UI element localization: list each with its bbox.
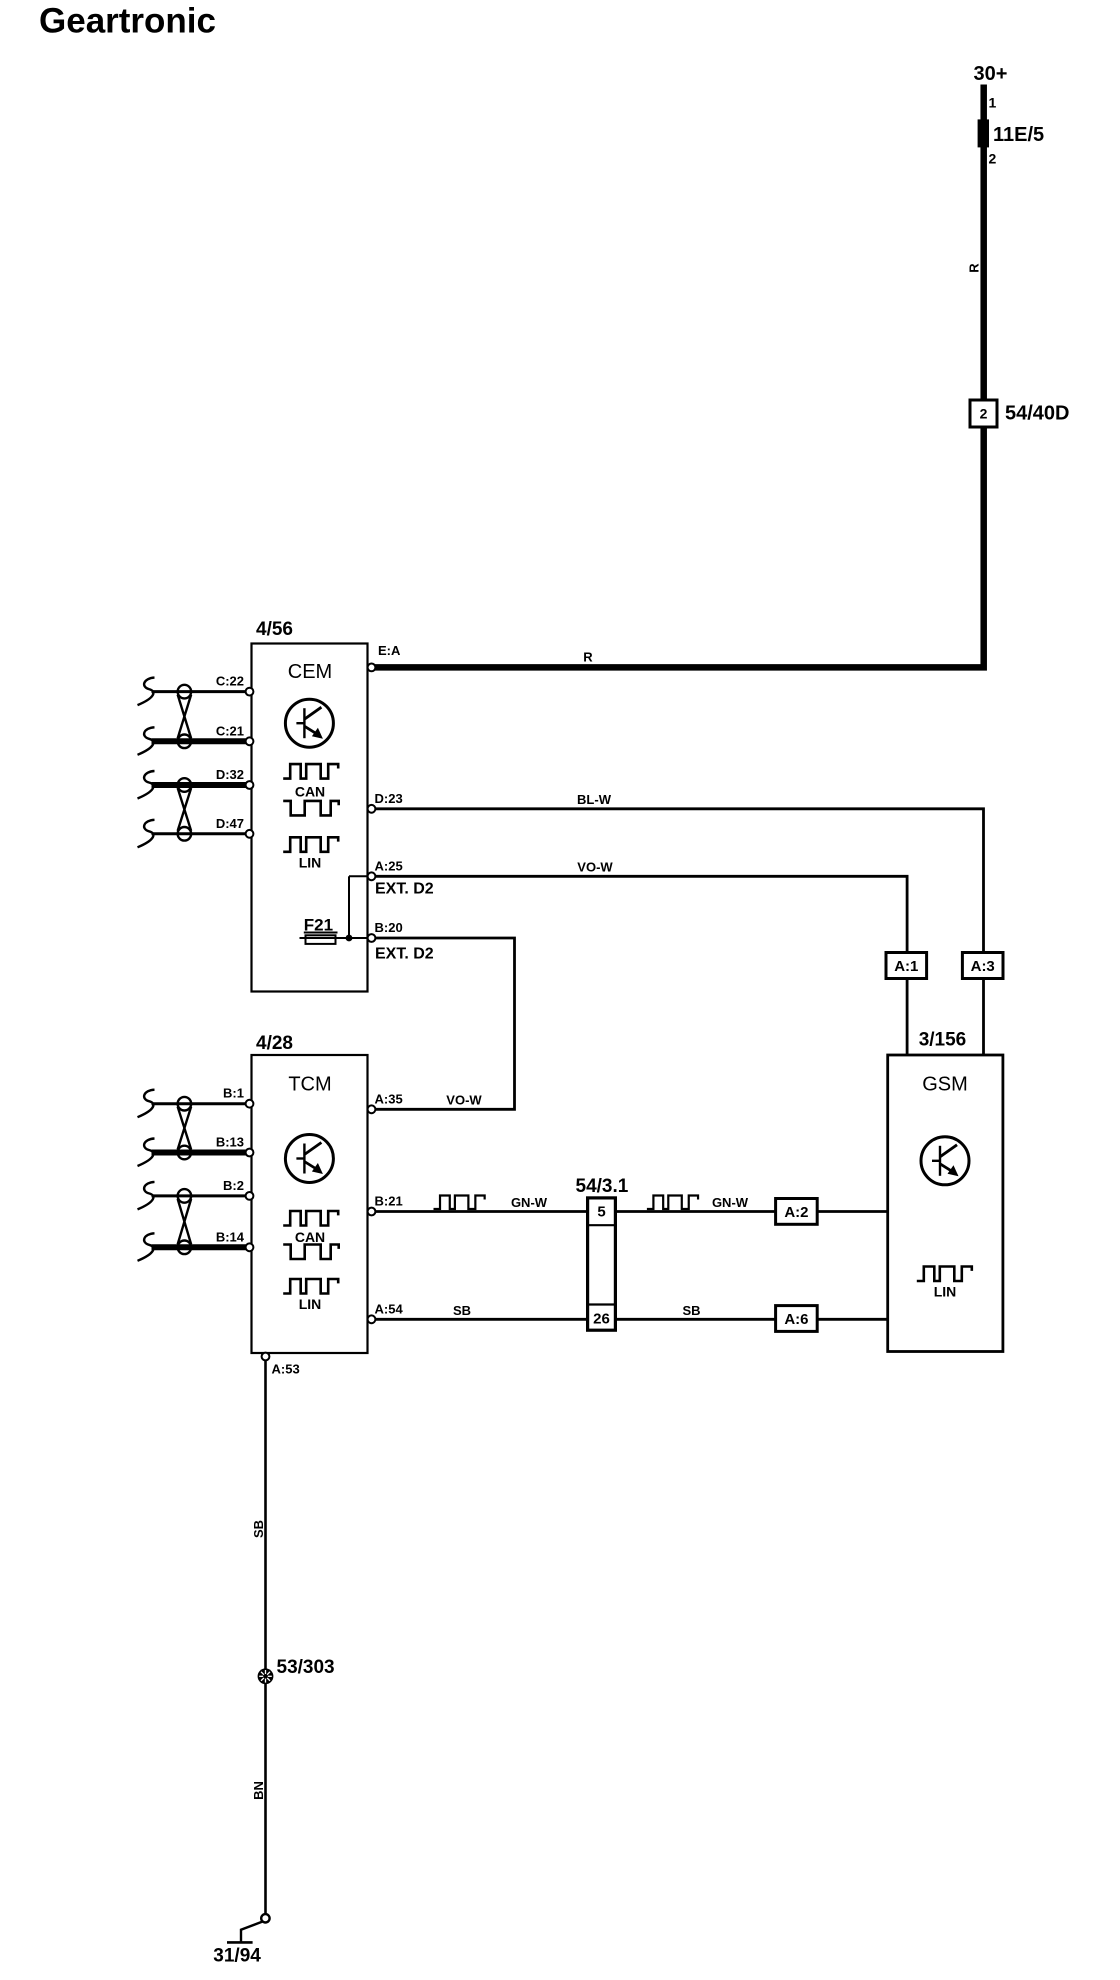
svg-text:26: 26 xyxy=(593,1311,610,1328)
svg-text:GSM: GSM xyxy=(922,1074,968,1096)
svg-text:B:20: B:20 xyxy=(375,920,403,935)
svg-text:GN-W: GN-W xyxy=(712,1195,749,1210)
svg-text:2: 2 xyxy=(989,151,997,167)
svg-text:C:21: C:21 xyxy=(216,723,244,738)
svg-text:B:1: B:1 xyxy=(223,1086,244,1101)
svg-text:A:2: A:2 xyxy=(784,1204,808,1221)
svg-text:VO-W: VO-W xyxy=(577,860,613,875)
svg-text:CAN: CAN xyxy=(295,1229,325,1245)
svg-text:BN: BN xyxy=(251,1781,266,1800)
svg-text:53/303: 53/303 xyxy=(277,1657,335,1678)
svg-text:D:47: D:47 xyxy=(216,816,244,831)
svg-text:A:54: A:54 xyxy=(375,1301,404,1316)
svg-text:D:23: D:23 xyxy=(375,791,403,806)
svg-text:BL-W: BL-W xyxy=(577,792,612,807)
svg-text:54/3.1: 54/3.1 xyxy=(576,1176,629,1197)
svg-text:A:25: A:25 xyxy=(375,858,403,873)
svg-text:SB: SB xyxy=(251,1520,266,1538)
svg-text:E:A: E:A xyxy=(378,643,401,658)
svg-text:C:22: C:22 xyxy=(216,674,244,689)
svg-text:VO-W: VO-W xyxy=(446,1092,482,1107)
svg-text:Geartronic: Geartronic xyxy=(39,2,216,41)
svg-text:11E/5: 11E/5 xyxy=(993,124,1044,146)
svg-text:EXT. D2: EXT. D2 xyxy=(375,881,434,898)
svg-text:CAN: CAN xyxy=(295,784,325,800)
svg-text:2: 2 xyxy=(980,406,988,422)
svg-text:A:6: A:6 xyxy=(784,1311,808,1328)
svg-text:A:35: A:35 xyxy=(375,1091,403,1106)
svg-text:A:1: A:1 xyxy=(894,958,918,975)
svg-text:LIN: LIN xyxy=(934,1284,957,1300)
svg-text:SB: SB xyxy=(453,1303,471,1318)
svg-text:4/28: 4/28 xyxy=(256,1033,293,1054)
svg-text:GN-W: GN-W xyxy=(511,1195,548,1210)
svg-text:TCM: TCM xyxy=(288,1074,331,1096)
svg-text:3/156: 3/156 xyxy=(919,1030,967,1051)
svg-text:CEM: CEM xyxy=(288,661,332,683)
svg-text:31/94: 31/94 xyxy=(213,1946,261,1967)
svg-text:B:2: B:2 xyxy=(223,1178,244,1193)
svg-text:SB: SB xyxy=(682,1303,700,1318)
svg-text:B:13: B:13 xyxy=(216,1135,244,1150)
svg-text:R: R xyxy=(583,650,593,665)
svg-text:B:21: B:21 xyxy=(375,1194,403,1209)
svg-text:LIN: LIN xyxy=(299,855,322,871)
svg-text:4/56: 4/56 xyxy=(256,619,293,640)
svg-text:1: 1 xyxy=(989,95,997,111)
svg-text:EXT. D2: EXT. D2 xyxy=(375,946,434,963)
svg-text:B:14: B:14 xyxy=(216,1229,245,1244)
svg-text:LIN: LIN xyxy=(299,1296,322,1312)
svg-text:A:53: A:53 xyxy=(272,1362,300,1377)
svg-text:30+: 30+ xyxy=(974,63,1008,85)
svg-text:A:3: A:3 xyxy=(971,958,995,975)
svg-text:R: R xyxy=(967,263,982,273)
svg-text:D:32: D:32 xyxy=(216,767,244,782)
svg-text:54/40D: 54/40D xyxy=(1005,403,1070,425)
svg-text:5: 5 xyxy=(597,1203,605,1220)
